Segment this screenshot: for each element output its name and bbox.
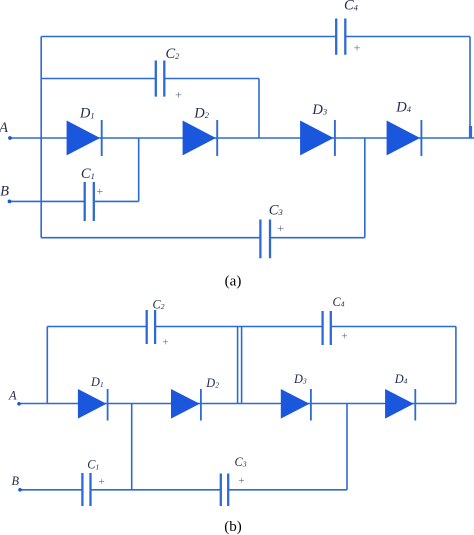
svg-text:+: + bbox=[354, 41, 361, 55]
svg-text:+: + bbox=[162, 337, 168, 349]
svg-text:+: + bbox=[238, 475, 244, 487]
svg-text:B: B bbox=[0, 184, 9, 200]
svg-text:A: A bbox=[8, 389, 17, 403]
svg-text:+: + bbox=[175, 88, 182, 102]
svg-text:(a): (a) bbox=[225, 274, 242, 290]
svg-text:+: + bbox=[96, 184, 103, 198]
svg-text:C4: C4 bbox=[344, 0, 359, 14]
svg-text:+: + bbox=[277, 221, 284, 235]
svg-text:A: A bbox=[0, 120, 8, 136]
svg-text:B: B bbox=[11, 474, 19, 488]
svg-text:(b): (b) bbox=[224, 519, 242, 535]
svg-text:+: + bbox=[341, 331, 347, 343]
svg-text:+: + bbox=[98, 476, 104, 488]
